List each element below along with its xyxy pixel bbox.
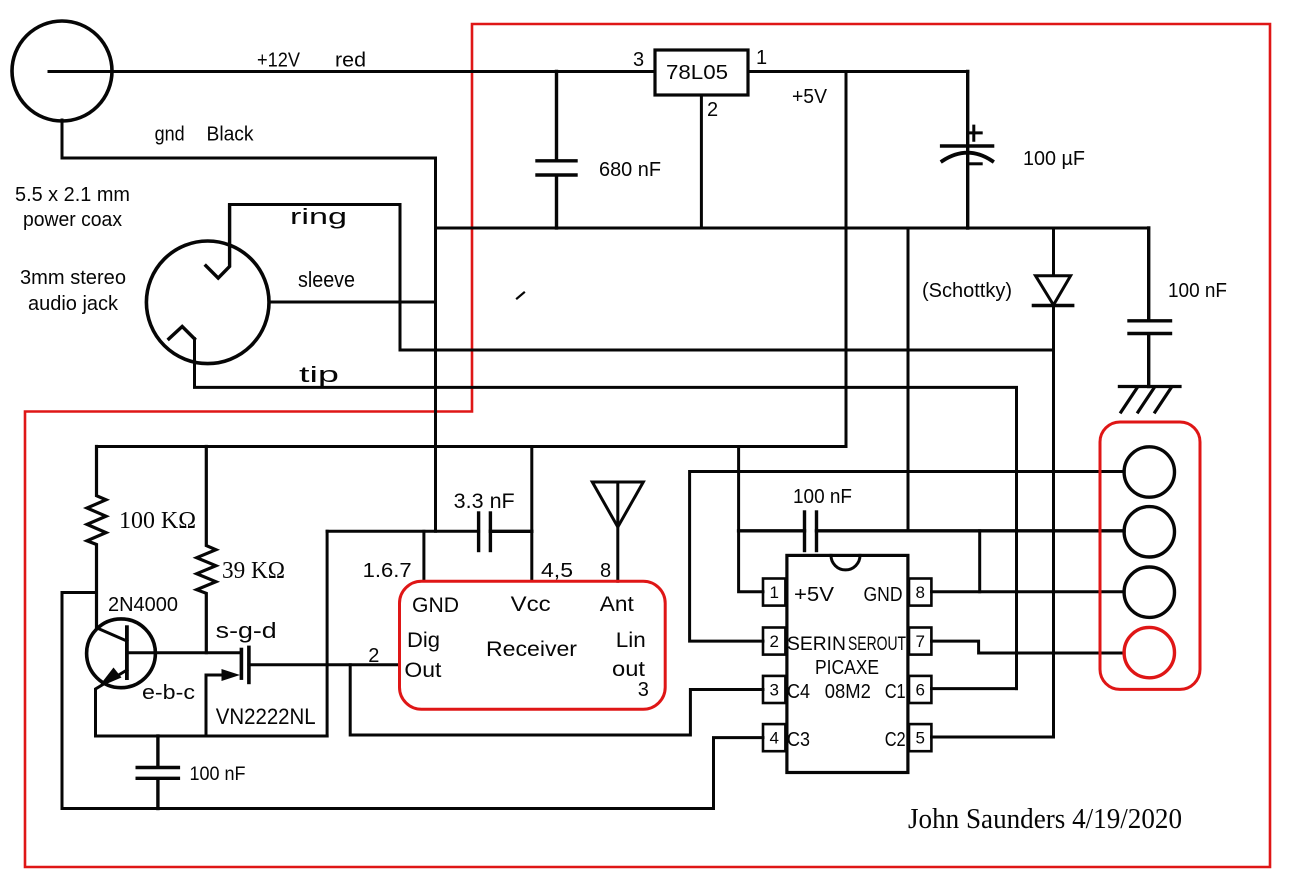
stray tick mark bbox=[517, 293, 524, 299]
svg-text:Lin: Lin bbox=[616, 629, 646, 652]
pin box 5 bbox=[909, 724, 931, 751]
pin box 2 bbox=[763, 628, 785, 655]
svg-text:C1: C1 bbox=[885, 681, 906, 703]
pin box 7 bbox=[909, 628, 931, 655]
svg-text:John Saunders 4/19/2020: John Saunders 4/19/2020 bbox=[908, 804, 1182, 835]
transistor Q1 2N4000 bbox=[87, 619, 156, 736]
svg-text:100 nF: 100 nF bbox=[190, 764, 246, 785]
svg-text:out: out bbox=[612, 658, 645, 681]
header pin circle 3 bbox=[1124, 567, 1174, 617]
svg-text:1: 1 bbox=[756, 47, 767, 69]
wire gnd branch down bbox=[326, 531, 329, 736]
wire gnd black from coax down then right bbox=[62, 120, 436, 158]
svg-text:100 µF: 100 µF bbox=[1023, 148, 1085, 170]
wire 78L05 output bbox=[748, 70, 968, 73]
wire receiver GND pin bbox=[422, 531, 425, 581]
chassis ground symbol bbox=[1119, 387, 1180, 413]
wire 78L05 pin2 to gnd rail bbox=[700, 95, 703, 228]
IC U1 PICAXE 08M2 bbox=[787, 555, 908, 772]
capacitor C5 100 nF above picaxe bbox=[739, 512, 1125, 551]
svg-text:e-b-c: e-b-c bbox=[142, 682, 195, 704]
capacitor C4 3.3 nF bbox=[479, 513, 532, 551]
wire +5V rail horizontal bbox=[97, 445, 847, 448]
wire ring to schottky bbox=[230, 205, 1054, 351]
wire receiver Vcc pin bbox=[530, 447, 533, 582]
wire emitter rail bbox=[96, 735, 328, 738]
wire collector node jog to C3 line bbox=[62, 593, 97, 809]
wire base to gate bbox=[127, 651, 241, 654]
svg-text:1: 1 bbox=[769, 583, 778, 602]
wire picaxe gnd pin8 to circle3 bbox=[932, 590, 1125, 593]
svg-text:Vcc: Vcc bbox=[511, 593, 551, 616]
capacitor 100 uF polarized bbox=[942, 72, 993, 229]
resistor R2 39 K bbox=[197, 447, 216, 653]
svg-text:08M2: 08M2 bbox=[825, 681, 871, 703]
svg-text:2: 2 bbox=[769, 632, 778, 651]
audio jack connector circle bbox=[146, 241, 269, 364]
header pin circle 1 bbox=[1124, 447, 1174, 497]
capacitor 100 nF right bbox=[1129, 228, 1171, 387]
wire dig out branch to picaxe C4 bbox=[350, 665, 763, 735]
svg-text:100 KΩ: 100 KΩ bbox=[119, 508, 196, 534]
wire tip to C1 bbox=[195, 339, 1017, 689]
svg-text:2N4000: 2N4000 bbox=[108, 594, 178, 616]
svg-text:+5V: +5V bbox=[794, 584, 835, 606]
wire gnd rail to cap line bbox=[907, 228, 910, 531]
capacitor C2 100 nF bottom bbox=[137, 736, 178, 809]
svg-text:2: 2 bbox=[368, 645, 379, 667]
svg-text:4,5: 4,5 bbox=[541, 560, 573, 582]
svg-text:tip: tip bbox=[299, 362, 339, 387]
svg-text:3mm stereo: 3mm stereo bbox=[20, 267, 126, 289]
svg-text:sleeve: sleeve bbox=[298, 267, 355, 292]
regulator U2 78L05 bbox=[655, 50, 748, 95]
svg-text:4: 4 bbox=[769, 729, 778, 748]
resistor R1 100 K bbox=[87, 447, 106, 629]
svg-text:6: 6 bbox=[915, 681, 924, 700]
svg-text:VN2222NL: VN2222NL bbox=[216, 704, 316, 729]
wire jack gnd vertical bbox=[434, 158, 437, 531]
wire gnd rail bbox=[436, 227, 1149, 230]
svg-text:gnd: gnd bbox=[155, 124, 185, 146]
pin numbers left bbox=[769, 583, 778, 748]
svg-text:s-g-d: s-g-d bbox=[216, 618, 277, 643]
svg-text:5.5 x 2.1 mm: 5.5 x 2.1 mm bbox=[15, 184, 130, 206]
wire sleeve bbox=[269, 301, 436, 304]
pin box 4 bbox=[763, 724, 785, 751]
receiver module box bbox=[400, 581, 666, 709]
wire C3 line bbox=[62, 738, 763, 809]
svg-text:3.3 nF: 3.3 nF bbox=[454, 490, 515, 513]
power coax connector bbox=[12, 21, 112, 121]
svg-text:8: 8 bbox=[600, 560, 611, 582]
svg-text:100 nF: 100 nF bbox=[793, 486, 852, 508]
svg-text:GND: GND bbox=[412, 594, 459, 617]
svg-text:C3: C3 bbox=[787, 729, 810, 751]
svg-text:100 nF: 100 nF bbox=[1168, 280, 1227, 302]
header pin circle 2 bbox=[1124, 507, 1174, 557]
svg-text:ring: ring bbox=[290, 204, 347, 229]
transistor Q2 VN2222NL mosfet bbox=[206, 647, 249, 736]
svg-text:Black: Black bbox=[207, 124, 255, 146]
pin box 6 bbox=[909, 676, 931, 703]
programming header box bbox=[1100, 422, 1200, 689]
svg-text:PICAXE: PICAXE bbox=[815, 657, 879, 679]
svg-text:(Schottky): (Schottky) bbox=[922, 280, 1012, 302]
svg-text:3: 3 bbox=[769, 681, 778, 700]
wire picaxe C2 pin5 to schottky bbox=[932, 736, 1054, 739]
svg-text:Dig: Dig bbox=[407, 629, 440, 652]
capacitor 680 nF bbox=[537, 72, 576, 229]
svg-text:5: 5 bbox=[915, 729, 924, 748]
wire +5V to picaxe pin1 bbox=[739, 447, 763, 592]
wire cap line down to pin8 line bbox=[978, 531, 981, 592]
pin box 3 bbox=[763, 676, 785, 703]
svg-text:3: 3 bbox=[633, 49, 644, 71]
header pin circle 4 red bbox=[1124, 627, 1174, 677]
jack tip contact bbox=[169, 327, 195, 339]
svg-text:audio jack: audio jack bbox=[28, 293, 119, 315]
svg-text:+5V: +5V bbox=[792, 86, 828, 108]
svg-text:SERIN: SERIN bbox=[787, 634, 846, 655]
jack ring contact bbox=[206, 205, 230, 278]
svg-text:8: 8 bbox=[915, 583, 924, 602]
svg-text:red: red bbox=[335, 50, 366, 72]
wire +5V down to rail bbox=[845, 72, 848, 447]
svg-text:7: 7 bbox=[915, 632, 924, 651]
diode D1 Schottky bbox=[1034, 228, 1073, 737]
svg-text:1.6.7: 1.6.7 bbox=[363, 560, 412, 582]
svg-text:2: 2 bbox=[707, 99, 718, 121]
svg-text:SEROUT: SEROUT bbox=[848, 634, 906, 655]
pin numbers right bbox=[915, 583, 924, 748]
wire drain to receiver Dig Out bbox=[249, 663, 400, 666]
pin box 1 bbox=[763, 579, 785, 606]
wire picaxe C1 pin6 bbox=[932, 687, 1017, 690]
pin box 8 bbox=[909, 579, 931, 606]
wire serout pin7 to circle4 bbox=[932, 641, 1125, 653]
svg-text:+12V: +12V bbox=[257, 50, 301, 72]
svg-text:GND: GND bbox=[864, 584, 903, 606]
svg-text:C4: C4 bbox=[787, 681, 810, 703]
svg-text:Ant: Ant bbox=[600, 593, 634, 616]
svg-text:680 nF: 680 nF bbox=[599, 159, 661, 181]
svg-text:Receiver: Receiver bbox=[486, 638, 577, 661]
wire +12V from coax to 78L05 pin 3 bbox=[49, 70, 655, 73]
wire 3.3nF gnd segment bbox=[327, 530, 479, 533]
svg-text:39 KΩ: 39 KΩ bbox=[222, 558, 285, 584]
antenna symbol bbox=[592, 482, 643, 581]
svg-text:power coax: power coax bbox=[23, 209, 122, 231]
svg-text:C2: C2 bbox=[885, 729, 906, 751]
svg-text:3: 3 bbox=[638, 679, 649, 701]
svg-text:78L05: 78L05 bbox=[666, 62, 728, 84]
svg-text:Out: Out bbox=[404, 659, 441, 682]
wire serin to circle1 bbox=[690, 472, 1125, 642]
